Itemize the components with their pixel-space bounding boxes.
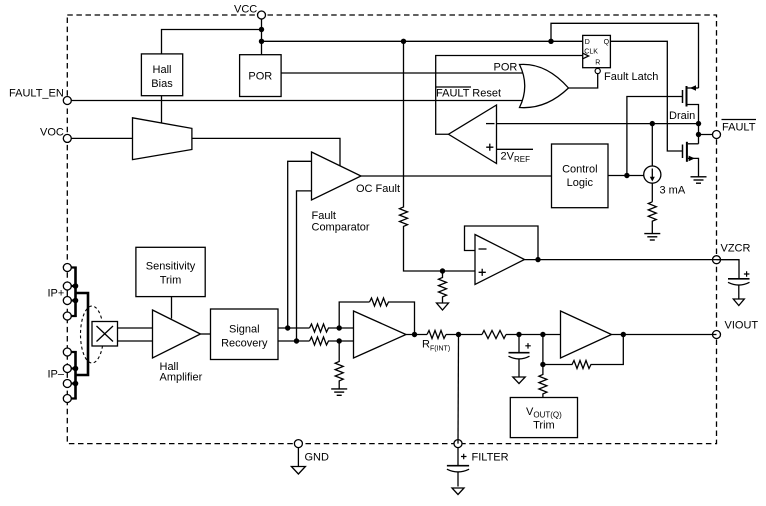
svg-text:3 mA: 3 mA bbox=[660, 185, 686, 197]
resistor (bottom input to ground) bbox=[335, 341, 343, 389]
wire amp output bbox=[406, 334, 561, 336]
wire VOUT(Q) branch bbox=[542, 335, 544, 365]
Fault Comparator U6 bbox=[312, 152, 362, 200]
ground (open triangle, divider) bbox=[437, 303, 449, 310]
IP pin stubs bbox=[71, 268, 77, 399]
wire U4 output to CLK bbox=[436, 56, 583, 135]
node feedback junction bbox=[540, 362, 545, 367]
pin FAULT_EN bbox=[9, 88, 71, 105]
svg-text:Logic: Logic bbox=[567, 177, 594, 189]
IP+ bus (bold) bbox=[74, 267, 77, 318]
svg-text:FAULT_EN: FAULT_EN bbox=[9, 88, 64, 100]
wire signal recovery outputs bbox=[278, 328, 310, 341]
POR box bbox=[240, 55, 282, 97]
comparator U4 (FAULT reset comparator, points left) bbox=[449, 105, 497, 164]
wire VZCR output bbox=[525, 259, 717, 261]
svg-text:FAULT Reset: FAULT Reset bbox=[436, 88, 501, 100]
op-amp U9 (VIOUT buffer) bbox=[561, 311, 612, 358]
resistor (divider to ground) bbox=[439, 271, 447, 303]
pin VOC bbox=[40, 127, 71, 143]
wire control output bbox=[608, 175, 644, 177]
resistor (to VOUT(Q) trim) bbox=[539, 365, 547, 398]
svg-text:FAULT: FAULT bbox=[722, 122, 756, 134]
svg-text:D: D bbox=[585, 39, 590, 46]
svg-text:Hall: Hall bbox=[153, 64, 172, 76]
transistor Q2 (open-drain NMOS) bbox=[683, 142, 699, 177]
wire buffer output to VIOUT bbox=[612, 334, 717, 336]
wire VOC input bbox=[67, 137, 132, 139]
IC boundary (dashed) bbox=[67, 15, 716, 444]
op-amp U10 (VZCR buffer) bbox=[475, 235, 525, 285]
svg-text:IP–: IP– bbox=[48, 369, 65, 381]
svg-text:Trim: Trim bbox=[533, 420, 555, 432]
op-amp U7 (Hall Amplifier) bbox=[153, 310, 201, 358]
wire drain rail (comparator minus to FAULT) bbox=[497, 123, 699, 125]
pin VIOUT bbox=[713, 320, 759, 339]
wire FAULT_EN to OR gate bbox=[67, 100, 523, 102]
wire VCC vertical into POR bbox=[261, 15, 263, 55]
wire 2VREF stub bbox=[497, 148, 534, 150]
resistor (current source load) bbox=[648, 202, 656, 234]
wire hall amp to signal recovery bbox=[201, 333, 211, 335]
resistor (VIOUT feedback) bbox=[543, 335, 623, 369]
node VCC/D-rail junction bbox=[259, 39, 264, 44]
VOC buffer U2 (trapezoid) bbox=[133, 118, 192, 160]
VOUT(Q) Trim box bbox=[510, 398, 577, 438]
svg-text:POR: POR bbox=[248, 71, 272, 83]
svg-text:Drain: Drain bbox=[669, 110, 695, 122]
node buffer output bbox=[621, 332, 626, 337]
wire D rail (VCC to D input) bbox=[262, 40, 583, 42]
current source I1 (3 mA) bbox=[644, 124, 661, 202]
capacitor (VZCR bypass, external) bbox=[728, 271, 750, 305]
wire sensitivity trim to hall amplifier bbox=[171, 297, 173, 319]
Signal Recovery box bbox=[211, 309, 279, 360]
node divider tap bbox=[440, 268, 445, 273]
wire OC fault output to Control Logic bbox=[361, 175, 552, 177]
R bubble bbox=[595, 68, 600, 73]
ground (NMOS source) bbox=[691, 177, 707, 183]
node drain/PMOS bbox=[696, 121, 701, 126]
svg-text:OC Fault: OC Fault bbox=[356, 183, 400, 195]
svg-text:VCC: VCC bbox=[234, 4, 257, 16]
plus sign U4 bbox=[486, 144, 493, 151]
loop conductor (bold jog) bbox=[76, 293, 89, 375]
Hall Bias box bbox=[141, 54, 182, 96]
node VZCR feedback bbox=[535, 257, 540, 262]
resistor (top input) bbox=[310, 324, 354, 332]
svg-text:Control: Control bbox=[562, 164, 597, 176]
svg-text:R: R bbox=[595, 60, 600, 67]
op-amp U8 (main amplifier) bbox=[354, 311, 407, 358]
wire VOC buffer output to fault comparator bbox=[192, 138, 340, 166]
wire fault comparator input top bbox=[288, 161, 312, 328]
node D-rail / top-rail junction bbox=[548, 39, 553, 44]
node SR top tap bbox=[285, 325, 290, 330]
svg-text:Trim: Trim bbox=[160, 275, 182, 287]
wire to FILTER pin bbox=[457, 335, 460, 444]
flip-flop U5 (Fault Latch) bbox=[583, 35, 611, 73]
node SR bottom tap bbox=[294, 338, 299, 343]
node IP- bus junctions bbox=[73, 366, 79, 372]
svg-text:Fault Latch: Fault Latch bbox=[604, 71, 658, 83]
pin IP- group bbox=[48, 348, 72, 403]
svg-text:Q: Q bbox=[604, 39, 610, 46]
wire VCC branch to Hall Bias bbox=[162, 30, 262, 54]
transistor Q1 (PMOS pull-up) bbox=[683, 85, 699, 123]
svg-text:Signal: Signal bbox=[229, 324, 260, 336]
svg-text:Bias: Bias bbox=[151, 78, 173, 90]
resistor (feedback) bbox=[370, 298, 415, 335]
IP- bus (bold) bbox=[74, 351, 77, 400]
pin FILTER bbox=[454, 440, 509, 464]
minus sign U10 bbox=[479, 248, 487, 250]
node filter tap bbox=[456, 332, 461, 337]
svg-text:Fault: Fault bbox=[312, 210, 336, 222]
hall element X1 bbox=[92, 322, 118, 347]
node D-rail / OC pull vertical bbox=[401, 39, 406, 44]
pin VCC bbox=[234, 4, 266, 20]
node IP+ bus junctions bbox=[73, 283, 79, 289]
pin IP+ group bbox=[48, 264, 72, 321]
node VOUT(Q) tap bbox=[540, 332, 545, 337]
wire Hall Bias to VOC buffer bbox=[161, 96, 163, 123]
node drain/current source bbox=[650, 121, 655, 126]
svg-text:Comparator: Comparator bbox=[312, 222, 370, 234]
label FAULT Reset (overline on FAULT) bbox=[436, 87, 501, 100]
svg-text:IP+: IP+ bbox=[48, 288, 65, 300]
resistor (bottom input) bbox=[310, 337, 354, 345]
Sensitivity Trim box bbox=[136, 247, 205, 296]
wire fault comparator input bottom bbox=[297, 191, 312, 341]
resistor RF(INT) bbox=[427, 331, 446, 339]
node cap tap bbox=[516, 332, 521, 337]
wire POR output to OR gate bbox=[281, 72, 523, 74]
svg-text:Recovery: Recovery bbox=[221, 338, 268, 350]
node VCC/HallBias junction bbox=[259, 27, 264, 32]
svg-text:FILTER: FILTER bbox=[472, 452, 509, 464]
svg-text:VZCR: VZCR bbox=[721, 243, 751, 255]
svg-text:VIOUT: VIOUT bbox=[725, 320, 759, 332]
clock wedge bbox=[583, 53, 589, 59]
pin GND bbox=[291, 440, 329, 474]
coupling ellipse (hall plate flux, dashed) bbox=[81, 306, 104, 363]
svg-text:POR: POR bbox=[494, 62, 518, 74]
svg-text:VOC: VOC bbox=[40, 127, 64, 139]
OR gate U3 bbox=[520, 64, 569, 107]
wire VZCR external cap bbox=[717, 260, 740, 279]
capacitor C1 (internal) bbox=[509, 335, 531, 384]
wire feedback rail bbox=[339, 302, 369, 328]
ground (current source) bbox=[644, 234, 660, 240]
svg-text:Sensitivity: Sensitivity bbox=[146, 261, 196, 273]
minus sign U4 bbox=[486, 123, 495, 125]
node amp input top bbox=[337, 325, 342, 330]
resistor (lag network) bbox=[482, 331, 506, 339]
wire to FAULT pin bbox=[698, 124, 700, 144]
Control Logic box bbox=[552, 144, 609, 208]
svg-text:Amplifier: Amplifier bbox=[160, 372, 203, 384]
plus sign U10 bbox=[479, 269, 486, 276]
wire OR output to R bubble bbox=[569, 74, 598, 89]
node FAULT junction bbox=[696, 132, 701, 137]
resistor (OC fault pull) vertical at x=403.5 bbox=[400, 41, 476, 271]
pin FAULT bbox=[713, 120, 757, 139]
svg-text:GND: GND bbox=[305, 452, 330, 464]
pin VZCR bbox=[713, 243, 751, 264]
wire PMOS gate bbox=[627, 97, 683, 176]
ground (input divider) bbox=[331, 389, 347, 395]
wire Q output to NMOS gate bbox=[610, 41, 683, 151]
node feedback/output bbox=[412, 332, 417, 337]
capacitor (FILTER, external) bbox=[447, 448, 469, 495]
wire hall element to hall amplifier (differential pair) bbox=[118, 328, 153, 341]
wire top rail to PMOS source bbox=[551, 23, 699, 88]
node amp input bottom bbox=[337, 338, 342, 343]
wire U10 feedback bbox=[465, 226, 539, 260]
node control/PMOS-gate junction bbox=[624, 173, 629, 178]
